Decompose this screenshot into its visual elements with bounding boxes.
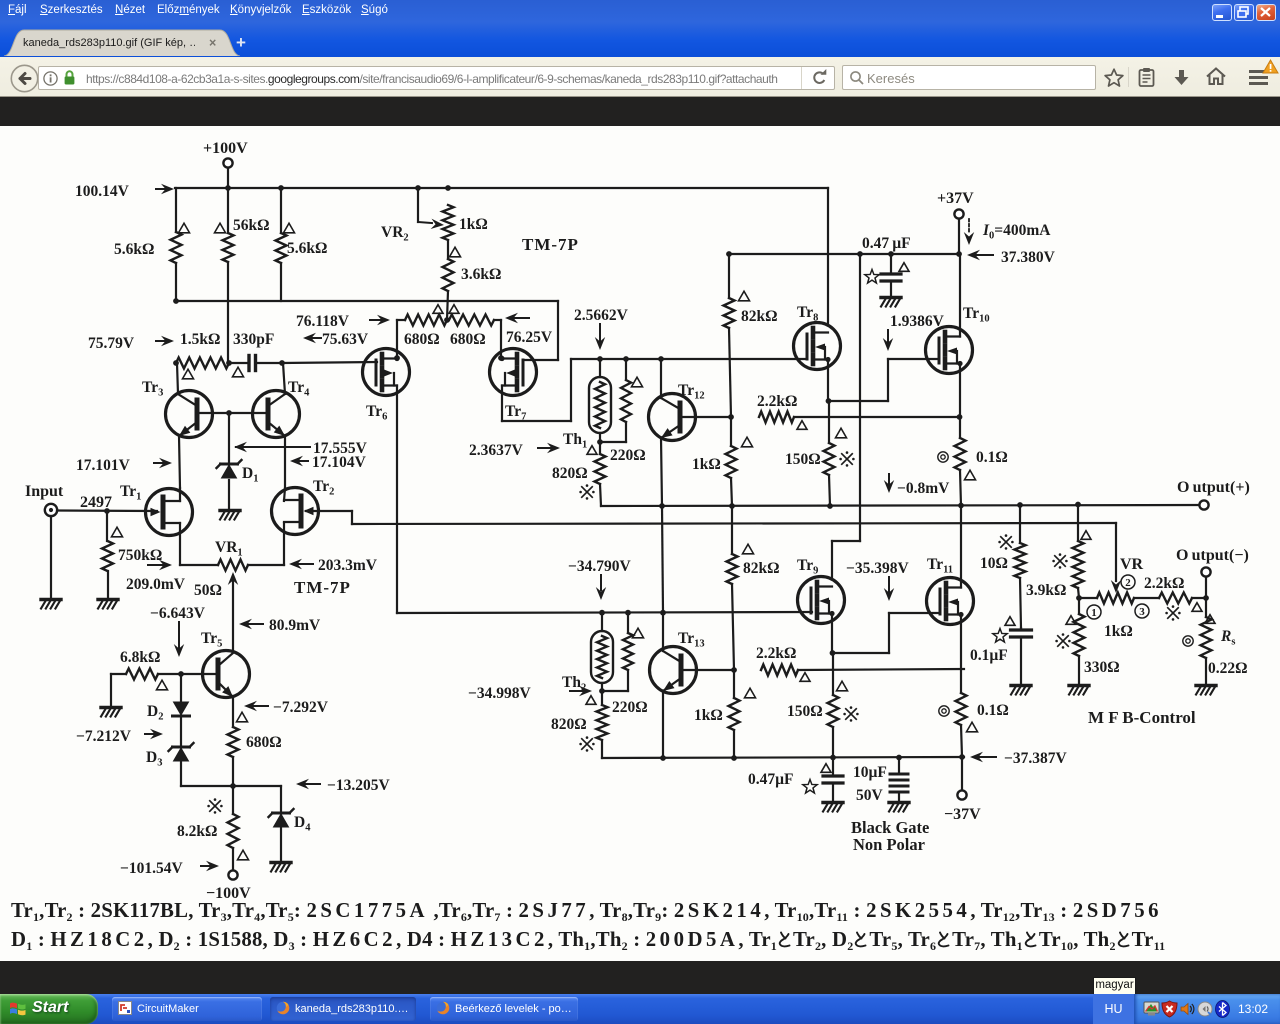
svg-text:Tr11​: Tr11​	[927, 556, 953, 576]
resistor 150 lower	[787, 653, 859, 758]
svg-text:76.25V: 76.25V	[506, 329, 553, 346]
svg-text:Th1​: Th1​	[563, 431, 587, 451]
label -13.205V	[296, 777, 390, 794]
node -37V junction	[959, 754, 965, 760]
svg-text:330pF: 330pF	[233, 331, 274, 348]
svg-text:D4​: D4​	[294, 814, 311, 834]
wire node row y301	[173, 298, 558, 304]
resistor 3.9k	[1026, 505, 1091, 600]
wire Tr10 drain	[959, 254, 961, 337]
ground 0.1uF	[1011, 686, 1031, 695]
svg-text:Tr3​: Tr3​	[142, 379, 163, 399]
transistor Tr2 JFET	[272, 478, 335, 535]
node 680 center	[444, 317, 450, 323]
wire Tr12 collector up	[660, 359, 662, 398]
svg-text:I0​=400mA: I0​=400mA	[982, 222, 1051, 242]
svg-text:680Ω: 680Ω	[246, 734, 282, 751]
wire 6.8k left down	[110, 674, 112, 706]
svg-text:VR1​: VR1​	[215, 539, 243, 559]
svg-text:5.6kΩ: 5.6kΩ	[114, 241, 154, 258]
wire Tr12 base right	[680, 414, 734, 420]
svg-text:M F B-Control: M F B-Control	[1088, 708, 1196, 727]
ground input	[41, 600, 61, 609]
wire Tr13 emitter	[662, 691, 664, 758]
diode D1 zener	[217, 460, 259, 485]
label 2497	[80, 494, 112, 511]
wire Tr4 collector	[283, 363, 285, 394]
capacitor 10uF 50V	[853, 758, 908, 805]
node Tr5 base	[178, 671, 184, 677]
potentiometer VR2 1k	[381, 188, 488, 259]
resistor 6.8k	[111, 649, 181, 690]
label 76.118V	[296, 313, 390, 330]
ground 0.47uF lower	[823, 803, 843, 812]
label -37.387V	[970, 750, 1067, 767]
wire VR1 wiper to Tr5 collector	[228, 572, 238, 651]
transistor Tr8 mosfet	[794, 304, 841, 370]
svg-text:150Ω: 150Ω	[787, 703, 823, 720]
label TM-7P upper	[522, 235, 579, 254]
resistor 750k	[102, 511, 162, 598]
svg-text:80.9mV: 80.9mV	[269, 617, 321, 634]
wire Tr8 source to Tr10 gate	[829, 359, 940, 401]
svg-text:Non Polar: Non Polar	[853, 835, 925, 854]
ground 750k	[98, 600, 118, 609]
wire Tr9 source to node	[830, 614, 836, 656]
svg-text:−101.54V: −101.54V	[120, 860, 183, 877]
svg-text:209.0mV: 209.0mV	[126, 576, 186, 593]
resistor 1k lower	[694, 670, 756, 758]
resistor 150 upper	[785, 401, 855, 506]
terminal -37V	[944, 757, 981, 823]
svg-text:0.47 µF: 0.47 µF	[862, 235, 911, 252]
svg-text:750kΩ: 750kΩ	[118, 547, 162, 564]
tooltip magyar	[1093, 977, 1136, 995]
svg-text:220Ω: 220Ω	[612, 699, 648, 716]
wire +100V rail	[175, 185, 828, 191]
label 1.9386V	[883, 313, 945, 351]
wire Tr6 drain to 680 left	[394, 320, 405, 361]
wire Tr1 drain up	[179, 488, 181, 501]
label 80.9mV	[239, 617, 321, 634]
svg-text:−13.205V: −13.205V	[327, 777, 390, 794]
transistor Tr1 JFET	[120, 483, 193, 536]
resistor 680 emitter	[228, 697, 282, 786]
ground 0.47uF upper	[881, 298, 901, 307]
svg-text:1.9386V: 1.9386V	[890, 313, 945, 330]
svg-text:−0.8mV: −0.8mV	[897, 480, 950, 497]
svg-text:Tr12​: Tr12​	[678, 382, 705, 402]
resistor 680 right	[449, 315, 494, 349]
label MFB-Control	[1088, 708, 1196, 727]
svg-text:Input: Input	[25, 483, 64, 500]
ground D4	[271, 863, 291, 872]
ground D1	[220, 511, 240, 520]
svg-text:+100V: +100V	[203, 140, 248, 157]
svg-text:150Ω: 150Ω	[785, 451, 821, 468]
svg-text:TM-7P: TM-7P	[522, 235, 579, 254]
node +100V supply terminal	[203, 140, 248, 168]
marker triangles 680 row	[433, 305, 459, 314]
window title / menu area	[0, 0, 1280, 58]
wire lower rail y758	[602, 755, 964, 761]
label -7.212V	[76, 728, 163, 745]
svg-text:820Ω: 820Ω	[552, 465, 588, 482]
capacitor 0.47uF upper	[862, 235, 911, 296]
svg-text:8.2kΩ: 8.2kΩ	[177, 823, 217, 840]
transistor Tr12	[649, 382, 705, 442]
label 209.0mV	[126, 560, 186, 593]
resistor 1.5k	[173, 331, 232, 379]
potentiometer VR1 50ohm	[180, 539, 284, 599]
label Black Gate	[851, 818, 929, 854]
potentiometer VR 1k	[1079, 575, 1181, 640]
capacitor 330pF	[229, 331, 285, 377]
svg-text:Tr1​: Tr1​	[120, 483, 141, 503]
svg-text:6.8kΩ: 6.8kΩ	[120, 649, 160, 666]
svg-text:Tr8​: Tr8​	[797, 304, 818, 324]
svg-text:820Ω: 820Ω	[551, 716, 587, 733]
thermistor Th1	[563, 359, 611, 451]
resistor 5.6k right	[276, 188, 328, 301]
label 2.5662V	[574, 307, 629, 350]
wire 680 right to Tr7 drain	[494, 320, 504, 361]
svg-text:−34.790V: −34.790V	[568, 558, 631, 575]
wire Tr8 source to node	[826, 360, 832, 404]
wire D3 to rail	[181, 762, 281, 789]
diode D3 zener	[146, 718, 194, 769]
svg-text:75.79V: 75.79V	[88, 335, 135, 352]
svg-text:1kΩ: 1kΩ	[694, 707, 723, 724]
svg-text:56kΩ: 56kΩ	[233, 217, 270, 234]
svg-text:10µF: 10µF	[853, 764, 887, 781]
svg-text:D2​: D2​	[147, 703, 163, 723]
navigation bar	[0, 57, 1280, 97]
ground 6.8k	[101, 708, 121, 717]
label 203.3mV	[289, 557, 378, 574]
svg-text:1kΩ: 1kΩ	[459, 216, 488, 233]
tab	[4, 29, 254, 61]
svg-text:2.2kΩ: 2.2kΩ	[1144, 575, 1184, 592]
wire Tr11 drain up	[960, 506, 962, 588]
label -101.54V	[120, 860, 219, 877]
svg-text:Tr9​: Tr9​	[797, 557, 818, 577]
svg-text:82kΩ: 82kΩ	[743, 560, 780, 577]
svg-text:Tr5​: Tr5​	[201, 630, 222, 650]
wire Tr2 gate to feedback	[306, 511, 352, 524]
svg-text:2.5662V: 2.5662V	[574, 307, 629, 324]
wire input shield to ground	[50, 516, 52, 598]
svg-text:Tr6​: Tr6​	[366, 403, 387, 423]
svg-text:3.6kΩ: 3.6kΩ	[461, 266, 501, 283]
resistor 2.2k upper	[757, 393, 959, 429]
diode D4 zener	[269, 786, 312, 834]
svg-text:17.104V: 17.104V	[312, 454, 367, 471]
svg-text:680Ω: 680Ω	[450, 331, 486, 348]
ground Rs	[1196, 686, 1216, 695]
label I0 400mA	[964, 219, 1051, 245]
svg-text:1kΩ: 1kΩ	[1104, 623, 1133, 640]
svg-text:D1​: D1​	[242, 465, 258, 485]
svg-text:2.3637V: 2.3637V	[469, 442, 524, 459]
svg-text:TM-7P: TM-7P	[294, 578, 351, 597]
svg-text:2.2kΩ: 2.2kΩ	[756, 645, 796, 662]
wire +37V down	[958, 219, 960, 254]
svg-text:3: 3	[1139, 606, 1145, 618]
svg-text:−35.398V: −35.398V	[846, 560, 909, 577]
svg-text:330Ω: 330Ω	[1084, 659, 1120, 676]
svg-text:17.101V: 17.101V	[76, 457, 131, 474]
svg-text:220Ω: 220Ω	[610, 447, 646, 464]
svg-text:0.1Ω: 0.1Ω	[976, 449, 1008, 466]
ground 10uF	[889, 803, 909, 812]
resistor 1k upper	[692, 417, 753, 506]
resistor 56k	[215, 188, 270, 363]
svg-text:76.118V: 76.118V	[296, 313, 350, 330]
svg-text:1kΩ: 1kΩ	[692, 456, 721, 473]
label -0.8mV	[884, 474, 950, 497]
label -6.643V	[150, 605, 206, 657]
wire +100V to rail	[227, 168, 229, 188]
svg-text:VR2​: VR2​	[381, 224, 409, 244]
label -34.790V	[568, 558, 631, 600]
svg-text:10Ω: 10Ω	[980, 555, 1008, 572]
wire Tr2 source down	[283, 523, 285, 565]
svg-text:D3​: D3​	[146, 749, 162, 769]
transistor Tr13	[650, 630, 705, 695]
wire y301 down to Tr7 gate	[524, 301, 558, 360]
text component list line2	[11, 928, 1165, 952]
thermistor Th2	[562, 613, 613, 694]
label 100.14V	[75, 183, 174, 200]
wire D4 to ground	[280, 828, 282, 861]
wire Tr13 base	[681, 667, 737, 673]
svg-text:37.380V: 37.380V	[1001, 249, 1056, 266]
svg-text:1: 1	[1091, 607, 1097, 619]
svg-text:1.5kΩ: 1.5kΩ	[180, 331, 220, 348]
capacitor 0.1uF	[970, 617, 1032, 684]
resistor 220 lower	[602, 613, 648, 716]
resistor 82k upper	[724, 254, 778, 417]
terminal +37V	[937, 190, 974, 219]
svg-text:3.9kΩ: 3.9kΩ	[1026, 582, 1066, 599]
resistor 680 left	[404, 315, 447, 349]
label 76.25V	[505, 313, 553, 346]
wire MFB feedback	[352, 523, 1121, 593]
resistor 820 upper	[552, 442, 606, 506]
svg-text:75.63V: 75.63V	[322, 331, 369, 348]
label 17.555V	[234, 440, 368, 457]
resistor 5.6k left	[114, 188, 190, 301]
transistor Tr7 mosfet	[490, 349, 537, 423]
terminal output minus	[1176, 547, 1249, 598]
text component list line1	[11, 899, 1162, 923]
resistor Rs 0.22	[1183, 598, 1248, 684]
wire Tr11 source down	[960, 615, 962, 694]
resistor 0.1 upper	[938, 417, 1008, 506]
capacitor 0.47uF lower	[748, 758, 843, 802]
label 2.3637V	[469, 442, 560, 459]
svg-text:2: 2	[1125, 577, 1131, 589]
svg-text:−37V: −37V	[944, 806, 981, 823]
svg-text:50V: 50V	[856, 787, 884, 804]
wire output plus bus	[601, 502, 1199, 509]
svg-text:0.1µF: 0.1µF	[970, 647, 1008, 664]
svg-text:Tr4​: Tr4​	[288, 379, 310, 399]
wire Tr1 source down	[179, 523, 181, 565]
label VR	[1120, 556, 1144, 573]
wire bias bus y359	[571, 356, 807, 362]
label -35.398V	[846, 560, 909, 601]
wire Tr13 collector	[662, 506, 663, 651]
resistor 2.2k MFB	[1144, 575, 1209, 611]
taskbar	[0, 994, 1280, 1024]
wire input to Tr1 gate	[57, 508, 157, 514]
svg-text:−7.212V: −7.212V	[76, 728, 132, 745]
transistor Tr5	[181, 630, 250, 700]
input terminal	[45, 504, 57, 516]
window buttons	[1212, 4, 1232, 21]
label 75.63V	[303, 331, 369, 348]
svg-text:82kΩ: 82kΩ	[741, 308, 778, 325]
svg-text:Tr10​: Tr10​	[963, 305, 990, 325]
label 17.104V	[290, 454, 367, 471]
svg-text:−6.643V: −6.643V	[150, 605, 206, 622]
wire 330pF node to Tr6 gate	[282, 362, 377, 363]
wire 37V bus	[726, 251, 962, 257]
resistor 3.6k	[443, 247, 502, 320]
svg-text:−37.387V: −37.387V	[1004, 750, 1067, 767]
terminal -100V	[206, 870, 251, 902]
label 75.79V	[88, 335, 174, 352]
resistor 330	[1055, 598, 1119, 684]
node Th2 bottom	[599, 688, 605, 694]
svg-text:+37V: +37V	[937, 190, 974, 207]
svg-text:O utput(+): O utput(+)	[1177, 479, 1250, 496]
svg-text:50Ω: 50Ω	[194, 582, 222, 599]
transistor Tr3	[142, 379, 213, 439]
node VR left	[1076, 595, 1082, 601]
label 37.380V	[967, 249, 1056, 266]
label -34.998V	[468, 685, 592, 702]
label -7.292V	[244, 699, 329, 716]
svg-text:Tr13​: Tr13​	[678, 630, 705, 650]
transistor Tr6 mosfet	[363, 349, 410, 423]
wire Tr2 drain up	[284, 488, 285, 501]
wire bias bus y613	[397, 610, 812, 616]
transistor Tr10 mosfet	[926, 305, 990, 374]
wire Tr9 source to Tr11 gate	[833, 613, 941, 653]
svg-text:680Ω: 680Ω	[404, 331, 440, 348]
wire rail corner down to Tr8 drain	[827, 188, 829, 323]
resistor 0.1 lower	[939, 693, 1009, 757]
svg-text:100.14V: 100.14V	[75, 183, 130, 200]
label TM-7P lower	[294, 578, 351, 597]
svg-text:Rs​: Rs​	[1220, 628, 1235, 648]
node Th1 bottom	[597, 439, 603, 445]
label Input	[25, 483, 64, 500]
wire base row to D1	[228, 413, 230, 509]
wire Tr7 source jog	[502, 359, 571, 421]
terminal output plus	[1177, 479, 1250, 510]
svg-text:−34.998V: −34.998V	[468, 685, 531, 702]
svg-text:0.22Ω: 0.22Ω	[1208, 660, 1248, 677]
svg-text:0.47µF: 0.47µF	[748, 771, 794, 788]
svg-text:−7.292V: −7.292V	[273, 699, 329, 716]
diode D2	[147, 674, 190, 723]
svg-text:2.2kΩ: 2.2kΩ	[757, 393, 797, 410]
wire base row Tr3-Tr4	[197, 410, 268, 416]
svg-text:203.3mV: 203.3mV	[318, 557, 378, 574]
wire Tr3 collector	[177, 363, 178, 394]
wire Tr6 source down to lower bus	[396, 386, 398, 614]
resistor 820 lower	[551, 691, 608, 758]
svg-text:Tr2​: Tr2​	[313, 478, 334, 498]
transistor Tr4	[253, 379, 311, 439]
svg-text:VR: VR	[1120, 556, 1144, 573]
transistor Tr9 mosfet	[797, 557, 845, 624]
wire Tr4 emitter to Tr2 drain	[284, 436, 286, 488]
label 17.101V	[76, 457, 172, 474]
resistor 2.2k lower	[756, 645, 964, 681]
svg-text:0.1Ω: 0.1Ω	[977, 702, 1009, 719]
resistor 8.2k	[177, 786, 249, 870]
wire Tr10 source	[957, 364, 963, 420]
wire Tr12 emitter down	[661, 438, 662, 506]
wire Tr3 emitter to Tr1 drain	[179, 436, 180, 488]
resistor 220 upper	[600, 359, 646, 464]
resistor 82k lower	[727, 506, 780, 670]
wire 37V to Tr9 drain	[832, 254, 860, 578]
ground 330	[1069, 686, 1089, 695]
resistor 10ohm	[980, 505, 1026, 628]
svg-text:O utput(−): O utput(−)	[1176, 547, 1249, 564]
svg-text:5.6kΩ: 5.6kΩ	[287, 240, 327, 257]
svg-text:Tr7​: Tr7​	[505, 403, 526, 423]
transistor Tr11 mosfet	[927, 556, 974, 625]
